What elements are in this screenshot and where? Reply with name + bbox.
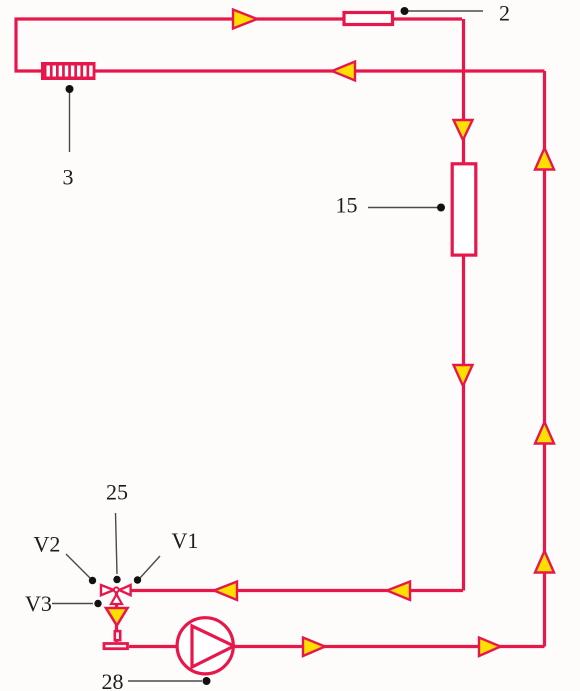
leader line label V3 — [52, 603, 93, 605]
svg-text:V3: V3 — [25, 591, 52, 616]
arrow down on middle pipe lower — [454, 365, 473, 386]
svg-text:V2: V2 — [34, 532, 61, 557]
wire middle vertical pipe — [462, 19, 465, 591]
wire bottom horizontal pipe — [129, 645, 545, 648]
arrow valve outlet down — [106, 608, 128, 626]
wire right vertical riser pipe — [543, 71, 546, 647]
valve base flange — [104, 644, 128, 649]
arrow right on bottom pipe left — [303, 638, 325, 657]
pump 28 — [177, 618, 234, 674]
svg-text:25: 25 — [106, 480, 128, 505]
svg-text:15: 15 — [336, 193, 358, 218]
node dot 2 — [401, 7, 409, 15]
wire second horizontal return pipe — [15, 69, 545, 72]
svg-text:3: 3 — [63, 165, 74, 190]
svg-text:28: 28 — [102, 669, 124, 691]
node dot V2 — [89, 577, 96, 584]
node dot 28 — [203, 677, 211, 685]
valve three-way V1 V2 V3 — [101, 585, 131, 604]
node dot 3 — [66, 85, 74, 93]
wire left vertical pipe — [14, 19, 17, 71]
arrow left on second pipe — [332, 62, 355, 81]
wire top horizontal supply pipe — [15, 17, 463, 20]
arrow right on bottom pipe right — [479, 638, 501, 657]
svg-text:V1: V1 — [172, 528, 199, 553]
arrow down on middle pipe upper — [454, 120, 473, 140]
node dot V3 — [94, 600, 101, 607]
leader line label 25 — [116, 513, 118, 574]
radiator 3 — [41, 62, 96, 80]
arrow up on right riser top — [535, 148, 554, 170]
arrow up on right riser lower — [535, 551, 554, 573]
valve stem fitting — [115, 631, 120, 640]
leader line label 28 — [128, 680, 202, 682]
leader line label 15 — [368, 207, 437, 209]
leader line label V2 — [66, 554, 90, 578]
node dot V1 — [134, 576, 141, 583]
tank 15 — [452, 164, 476, 255]
svg-text:2: 2 — [499, 1, 510, 26]
arrow left on middle pipe outer — [214, 582, 237, 601]
leader line label 3 — [69, 91, 71, 152]
node dot 25 — [113, 576, 120, 583]
heat exchanger 2 — [344, 13, 393, 25]
wire middle horizontal pipe to valve — [130, 589, 463, 592]
arrow up on right riser middle — [535, 422, 554, 444]
node dot 15 — [437, 204, 445, 212]
leader line label 2 — [405, 10, 483, 12]
leader line label V1 — [140, 556, 160, 578]
arrow left on middle pipe inner — [387, 582, 410, 601]
arrow right on top pipe — [233, 10, 257, 29]
wire valve stem pipe — [115, 590, 118, 642]
